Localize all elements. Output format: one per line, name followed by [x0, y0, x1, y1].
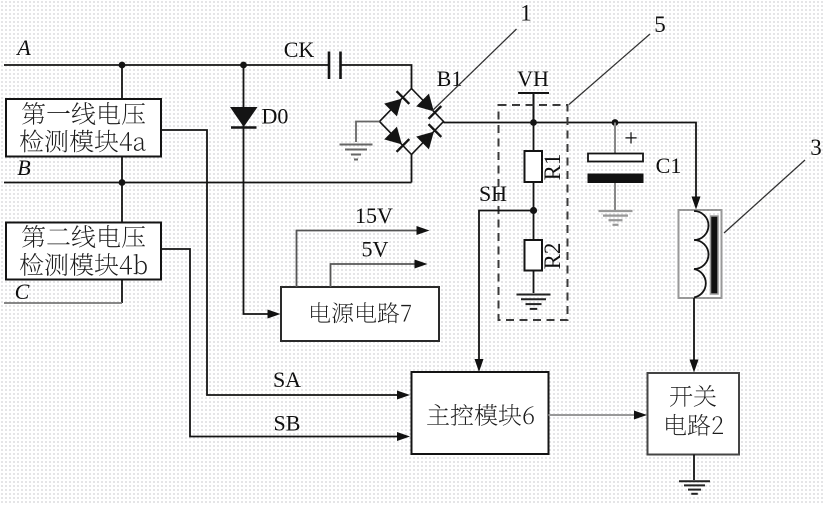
ground below C1 [599, 210, 633, 212]
diode D0 wire down to power circuit 7 [244, 65, 274, 314]
ground below R2 [517, 294, 551, 296]
bridge diode top-left (left to top) [384, 91, 409, 116]
node junction on line A to diode D0 [240, 62, 247, 69]
wire SB from module 4b to main control module 6 [161, 249, 404, 437]
transformer core bar [711, 216, 719, 294]
node junction DC rail to R1 [530, 119, 537, 126]
svg-text:VH: VH [517, 66, 549, 91]
node junction DC rail to C1 [612, 119, 619, 126]
svg-text:A: A [15, 35, 31, 60]
svg-text:15V: 15V [355, 203, 393, 228]
wire 5V output [331, 264, 421, 287]
transformer coil [694, 211, 709, 298]
wire bridge bottom to line B [411, 155, 413, 183]
ground below switch circuit 2 [679, 480, 710, 482]
callout line 1 to bridge [432, 29, 517, 111]
bridge diode bottom-right (bottom to right) [416, 124, 441, 149]
wire main control module 6 to switch circuit 2 [549, 414, 641, 416]
svg-text:R2: R2 [540, 243, 565, 270]
svg-text:C1: C1 [656, 153, 682, 178]
bridge rectifier B1 diamond [380, 89, 444, 155]
wire transformer to switch circuit 2 [693, 298, 695, 365]
svg-text:B: B [17, 155, 30, 180]
svg-text:R1: R1 [540, 154, 565, 181]
resistor R2 [525, 211, 543, 294]
box second line voltage detection module 4b [6, 223, 161, 280]
net VH terminal [518, 93, 549, 123]
svg-text:3: 3 [810, 135, 822, 160]
diode D0 [230, 107, 258, 128]
wire SH to main control module 6 [479, 211, 534, 365]
wire line A phase [4, 65, 412, 89]
svg-text:+: + [624, 126, 638, 152]
wire line B phase [4, 182, 412, 184]
wire SA from module 4a to main control module 6 [161, 130, 404, 395]
svg-text:D0: D0 [262, 104, 289, 129]
wire 15V output [297, 231, 423, 288]
svg-text:5: 5 [654, 12, 666, 37]
node junction on line A to detection module 4a [119, 62, 126, 69]
wire line C phase [4, 302, 122, 304]
transformer 3 box [679, 210, 722, 298]
dashed box 5 voltage divider [499, 105, 568, 320]
svg-text:SH: SH [479, 181, 507, 206]
svg-text:CK: CK [284, 37, 315, 62]
node junction on line B [119, 179, 126, 186]
box power circuit 7 [281, 287, 439, 341]
bridge diode top-right (top to right) [416, 94, 441, 119]
svg-text:C: C [15, 279, 30, 304]
callout line 5 to dashed box [569, 34, 650, 105]
svg-text:SA: SA [273, 367, 301, 392]
box switch circuit 2 [648, 373, 740, 455]
wire DC rail from bridge to transformer [444, 123, 697, 203]
wire vertical bus x=122 linking A,B,C to modules [121, 65, 123, 303]
wire switch circuit 2 to ground [693, 455, 695, 481]
svg-text:SB: SB [274, 411, 301, 436]
svg-text:5V: 5V [362, 237, 389, 262]
capacitor CK plates [329, 52, 341, 80]
wire bridge left vertex to ground [356, 122, 380, 143]
svg-text:1: 1 [520, 1, 532, 26]
box first line voltage detection module 4a [6, 99, 161, 157]
box main control module 6 [412, 372, 549, 454]
capacitor C1 polarized [588, 123, 644, 211]
resistor R1 [525, 123, 543, 211]
ground at bridge negative terminal [340, 144, 373, 146]
bridge diode bottom-left (left to bottom) [384, 127, 409, 152]
svg-text:B1: B1 [437, 66, 463, 91]
callout line 3 to transformer [724, 160, 805, 233]
node SH junction [530, 207, 537, 214]
arrow into transformer 3 [692, 197, 701, 210]
